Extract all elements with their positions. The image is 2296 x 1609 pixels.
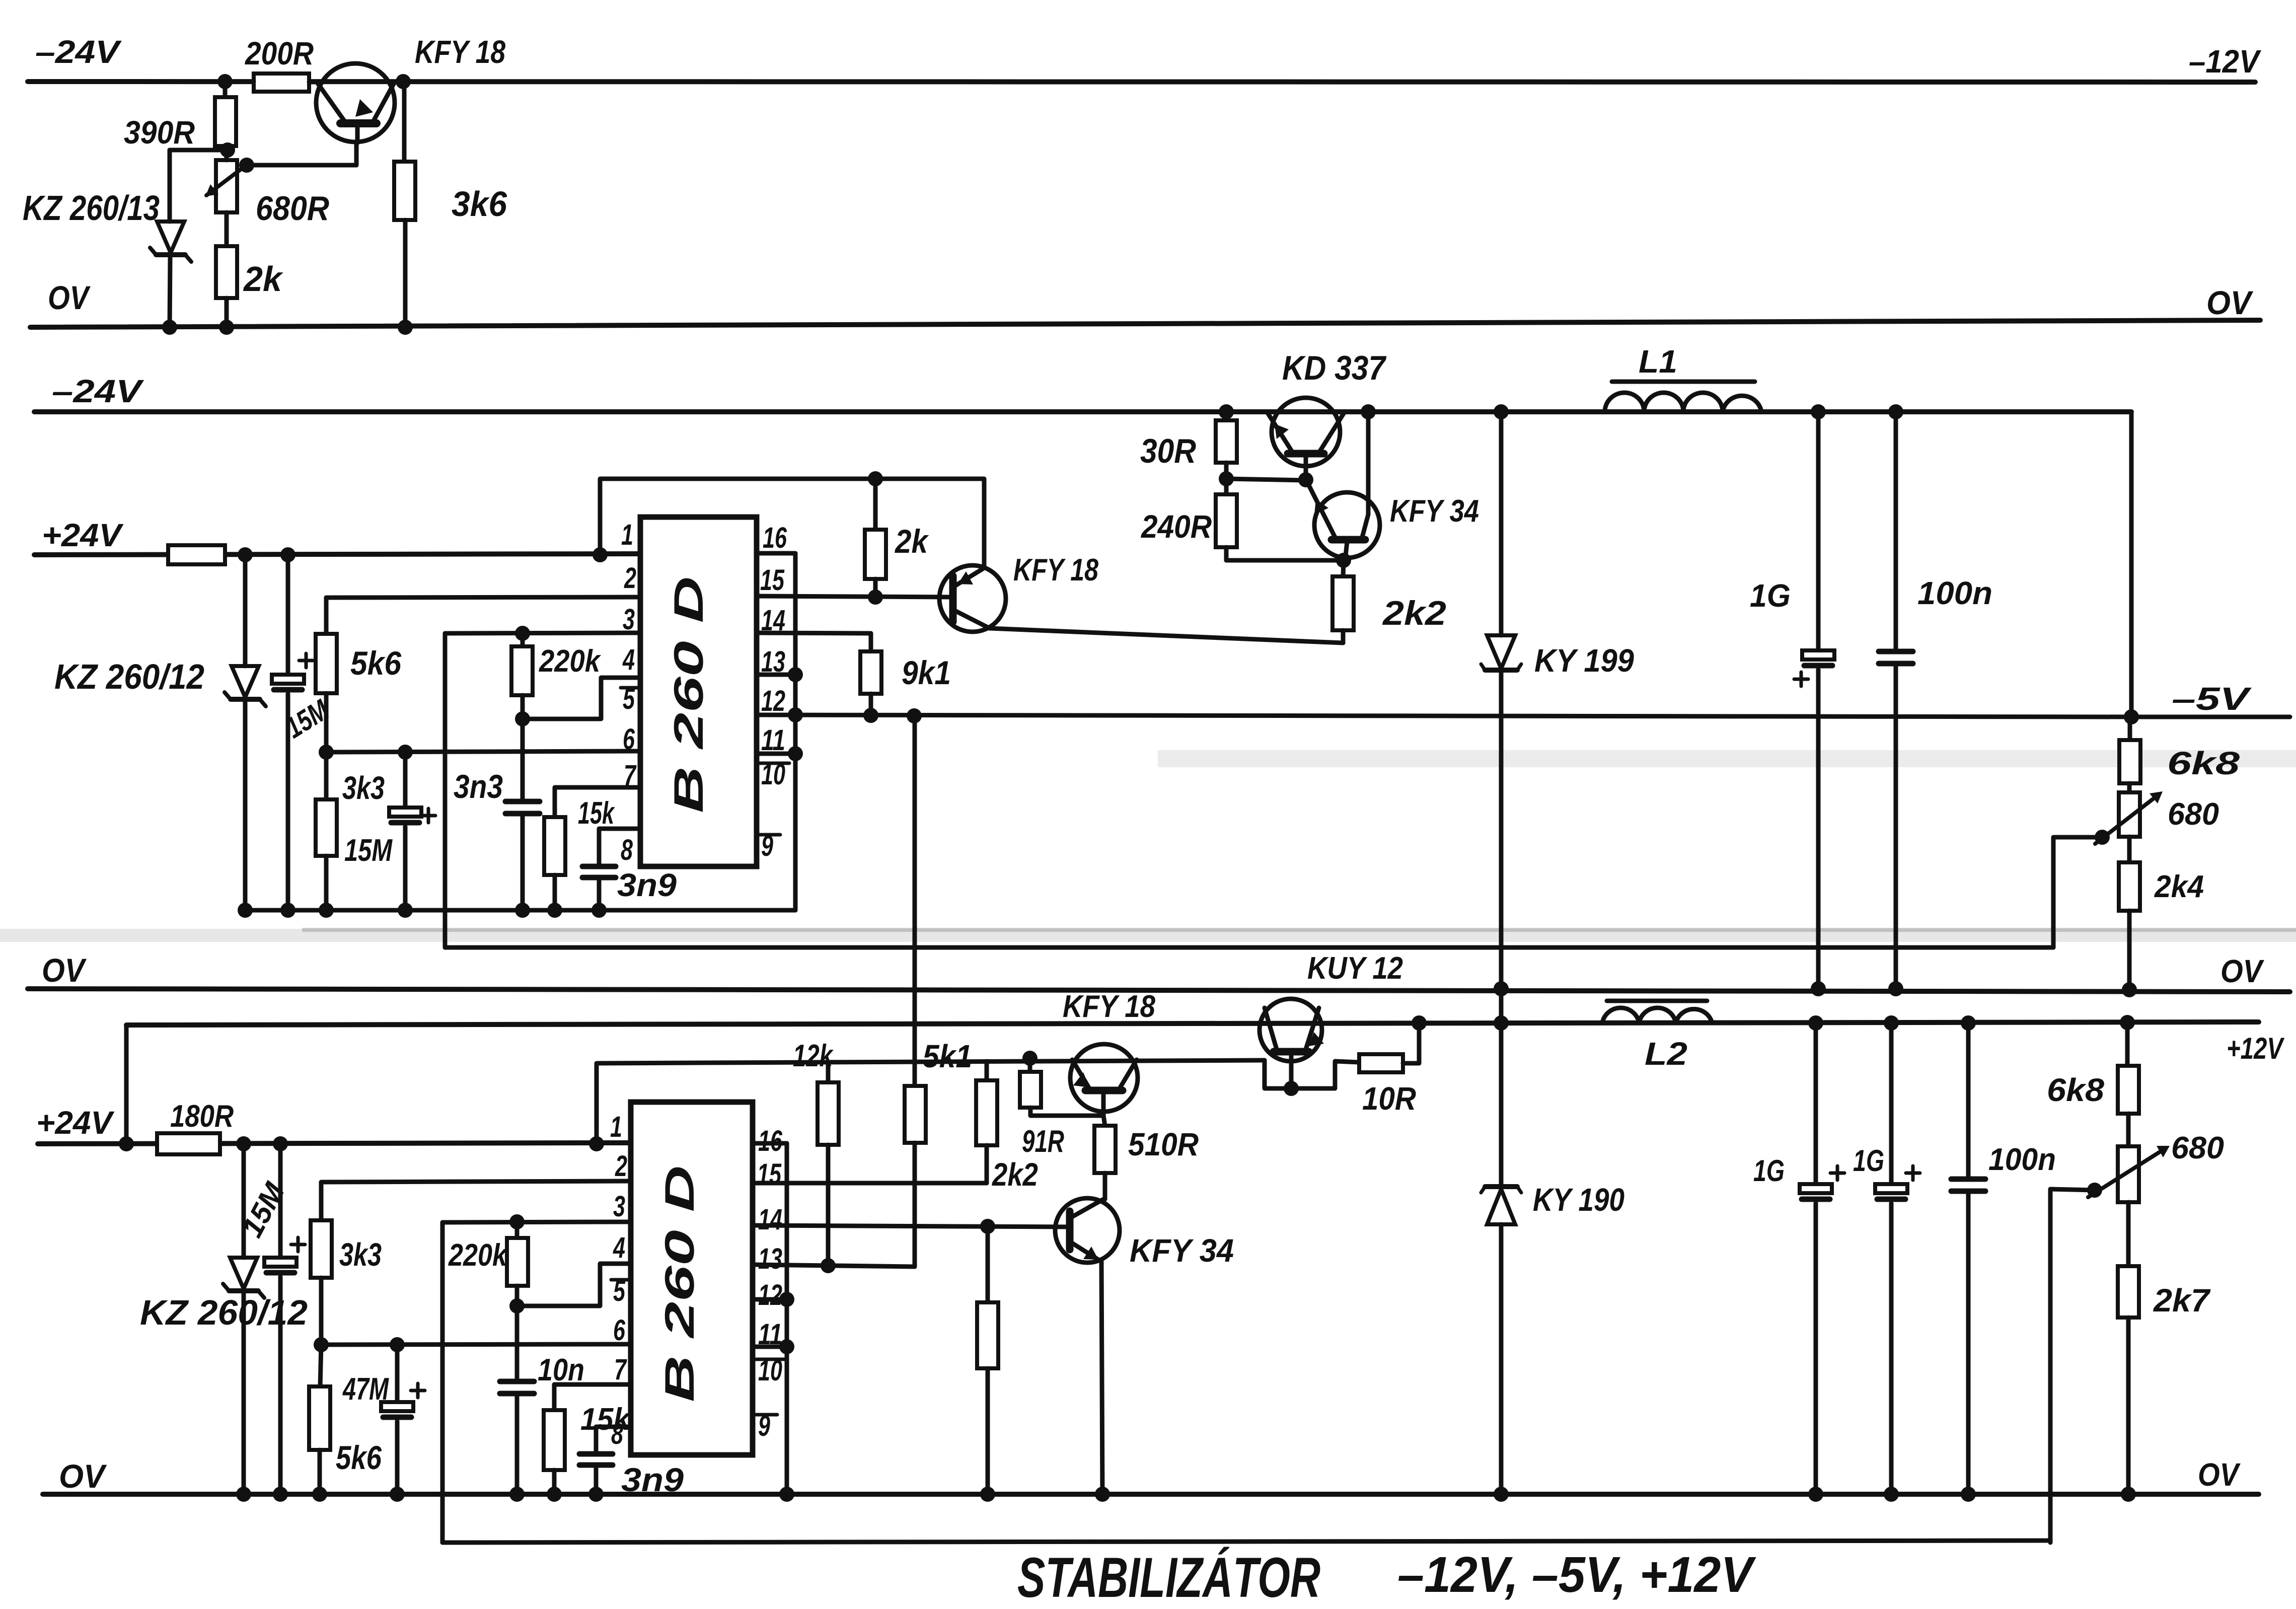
svg-text:2: 2 [624, 562, 636, 595]
wire pin15 (bottom) [753, 1181, 987, 1186]
node KZ 260/12 junction [238, 547, 253, 562]
svg-text:3k3: 3k3 [342, 770, 385, 806]
node 91R junction on Line B [1022, 1051, 1038, 1066]
resistor 15k (bottom) [544, 1384, 631, 1502]
svg-text:3n3: 3n3 [454, 768, 503, 805]
svg-text:1G: 1G [1750, 577, 1791, 614]
svg-text:12k: 12k [793, 1039, 834, 1073]
zener diode KZ 260/12 [225, 555, 266, 918]
label 10n [538, 1353, 584, 1387]
svg-text:OV: OV [2220, 953, 2265, 989]
label OV bottom-left [59, 1457, 107, 1495]
net 0V rail (middle) [28, 989, 2290, 992]
potentiometer 680 (middle) [2095, 783, 2163, 845]
label B260D (IC2) [657, 1165, 703, 1402]
label 6k8 mid [2167, 745, 2240, 781]
capacitor 3n9 (bottom) [579, 1427, 631, 1502]
zener diode KZ 260/13 [150, 150, 191, 335]
svg-text:B 260 D: B 260 D [657, 1165, 703, 1402]
wire pin6 row (middle) [319, 745, 640, 760]
label L2 [1645, 1036, 1687, 1072]
label KFY 34 bottom [1130, 1232, 1234, 1269]
IC1 pin 4 label [622, 643, 635, 676]
label 2k2 mid [1382, 594, 1446, 632]
node 30R junction on -24V [1219, 404, 1234, 419]
label OV mid-left [42, 952, 87, 989]
svg-text:2k: 2k [894, 523, 929, 560]
net +24V rail (bottom) [38, 1143, 631, 1144]
label 15k mid [578, 796, 615, 831]
label KZ 260/12 mid [54, 657, 204, 696]
svg-text:9k1: 9k1 [902, 654, 951, 691]
IC1 pin 14 label [761, 604, 785, 637]
inductor L2 [1602, 1001, 1712, 1023]
svg-text:1: 1 [621, 519, 633, 551]
svg-text:2k2: 2k2 [1382, 594, 1446, 632]
svg-text:OV: OV [59, 1457, 107, 1495]
resistor 220k (middle) [511, 633, 533, 726]
node 15M junction (bottom) [273, 1136, 288, 1151]
zener diode KZ 260/12 (bottom) [223, 1144, 264, 1502]
label KD 337 [1282, 349, 1387, 387]
svg-text:KZ 260/13: KZ 260/13 [23, 188, 160, 228]
wire pin4 jog (bottom) [517, 1264, 631, 1306]
wire 680 wiper to feedback (bottom) [2050, 1189, 2095, 1543]
IC1 pin 8 label [621, 834, 633, 866]
wire pin13 (bottom) [753, 1265, 915, 1267]
resistor 390R [215, 82, 236, 150]
label 15M bottom (rotated) [236, 1177, 291, 1242]
svg-text:390R: 390R [124, 114, 195, 151]
IC2 pin 5 label [611, 1275, 629, 1307]
svg-text:+24V: +24V [42, 517, 124, 553]
wire pin3 (middle) with feedback riser [445, 626, 640, 947]
IC2 pin 3 label [613, 1190, 625, 1223]
label -5V [2172, 681, 2252, 717]
node +24V riser junction [119, 1136, 134, 1151]
svg-text:B 260 D: B 260 D [666, 576, 712, 813]
svg-text:OV: OV [2198, 1456, 2241, 1493]
label 6k8 bottom [2047, 1072, 2104, 1108]
IC2 pin 6 label [613, 1314, 626, 1347]
svg-text:680: 680 [2168, 797, 2219, 832]
potentiometer 680 (bottom) [2087, 1114, 2170, 1202]
net 0V rail (bottom) [43, 1492, 2259, 1497]
svg-text:3: 3 [613, 1190, 625, 1223]
label 390R [124, 114, 195, 151]
label 510R [1128, 1126, 1199, 1162]
capacitor 3n9 (middle) [582, 829, 640, 918]
label 2k7 [2153, 1282, 2211, 1319]
label +12V [2227, 1032, 2285, 1065]
label KFY18 mid [1013, 553, 1098, 588]
node KFY34 emitter to 0V [1095, 1487, 1110, 1502]
IC1 pin 5 label [621, 683, 639, 715]
label 220k mid [539, 644, 602, 679]
series resistor on +24V [168, 545, 225, 564]
label 680R [256, 189, 329, 228]
svg-text:15: 15 [760, 564, 785, 597]
label +24V bottom-left [36, 1105, 115, 1141]
label 1G mid [1750, 577, 1791, 614]
label 3n3 [454, 768, 503, 805]
svg-text:4: 4 [622, 643, 635, 676]
IC2 pin 11 label [758, 1318, 782, 1351]
IC2 pin12 stub [753, 1297, 787, 1302]
wire KFY18 collector to 2k2 [990, 628, 1343, 643]
IC2 pin 16 label [758, 1125, 783, 1157]
resistor 2k (top) [216, 212, 237, 335]
IC2 right pin bus [779, 1143, 794, 1502]
wire KFY34 collector to -24V [1361, 404, 1376, 515]
IC1 pin13 stub [757, 673, 795, 677]
svg-text:7: 7 [614, 1353, 627, 1386]
label 680 mid [2168, 797, 2219, 832]
capacitor 1G (bottom first) [1800, 1015, 1844, 1502]
node pin1 junction (bottom) [589, 1136, 604, 1151]
IC2 pin 7 label [614, 1353, 627, 1386]
transistor KFY34 (bottom) [1055, 1198, 1120, 1494]
svg-text:OV: OV [2206, 284, 2254, 321]
capacitor 10n [500, 1306, 534, 1502]
wire pin14 (bottom) [753, 1219, 1070, 1234]
resistor 12k [818, 1063, 839, 1273]
resistor 15k (middle) [544, 787, 640, 918]
IC U1 B260D body [640, 517, 757, 866]
svg-text:91R: 91R [1022, 1124, 1064, 1159]
resistor 5k1 [905, 716, 926, 1267]
node 100n top (middle) [1888, 404, 1903, 419]
capacitor 1G (middle) [1794, 412, 1834, 996]
IC1 pin 11 label [761, 724, 785, 757]
svg-text:KY 199: KY 199 [1534, 642, 1634, 679]
node 390R/680R junction [170, 142, 235, 158]
label 2k4 [2154, 869, 2204, 904]
label 12k [793, 1039, 834, 1073]
svg-text:1G: 1G [1753, 1154, 1785, 1188]
label KUY 12 [1307, 951, 1403, 986]
svg-text:KD 337: KD 337 [1282, 349, 1387, 387]
svg-text:+24V: +24V [36, 1105, 115, 1141]
svg-text:5k6: 5k6 [350, 644, 402, 682]
IC1 pin 6 label [623, 723, 635, 756]
IC1 pin 2 label [624, 562, 636, 595]
IC1 pin 16 label [763, 522, 787, 554]
IC1 pin 7 label [624, 759, 637, 792]
wire pin15 to KFY18 base [757, 596, 953, 597]
svg-text:240R: 240R [1141, 508, 1212, 545]
svg-text:8: 8 [621, 834, 633, 866]
net 0V rail (top) [30, 320, 2260, 327]
label KFY 34 mid [1390, 494, 1479, 529]
svg-text:180R: 180R [170, 1099, 234, 1134]
svg-text:1: 1 [610, 1111, 622, 1143]
label 1G bottom first [1753, 1154, 1785, 1188]
svg-text:6k8: 6k8 [2167, 745, 2240, 781]
svg-text:220k: 220k [448, 1238, 508, 1273]
svg-text:–12V, –5V, +12V: –12V, –5V, +12V [1397, 1547, 1756, 1603]
IC2 pin 8 label [611, 1418, 624, 1450]
svg-text:L2: L2 [1645, 1036, 1687, 1072]
label KZ 260/12 bottom [140, 1293, 308, 1332]
label 100n bottom [1988, 1142, 2056, 1177]
label KFY18 bottom [1063, 989, 1155, 1024]
resistor 91R [1020, 1058, 1103, 1116]
wire 680 wiper to feedback [2053, 837, 2102, 947]
diode KY199 [1481, 404, 1521, 996]
wire component ground bus (middle) [245, 908, 795, 913]
svg-text:16: 16 [763, 522, 787, 554]
label 3n9 bottom [621, 1461, 684, 1498]
IC1 pin 1 label [621, 519, 633, 551]
label -12V top-right [2189, 43, 2262, 80]
label KFY18 top [415, 34, 505, 70]
label 15k bottom [580, 1402, 631, 1437]
svg-text:15M: 15M [344, 833, 393, 868]
IC2 pin 14 label [758, 1203, 782, 1236]
wire feedback line (bottom) [442, 1541, 2050, 1543]
svg-text:2k7: 2k7 [2153, 1282, 2211, 1319]
transistor KFY18 (middle) [939, 565, 1006, 632]
svg-text:KFY 34: KFY 34 [1390, 494, 1479, 529]
IC2 pin 9 label [756, 1410, 777, 1442]
svg-text:2k2: 2k2 [992, 1156, 1038, 1193]
svg-text:KY 190: KY 190 [1533, 1182, 1624, 1218]
node junction on -24V at 390R [217, 74, 233, 89]
svg-text:30R: 30R [1140, 432, 1196, 470]
IC2 pin 2 label [615, 1150, 627, 1183]
svg-text:2: 2 [615, 1150, 627, 1183]
capacitor 15M (bottom) [264, 1144, 305, 1502]
svg-text:KZ 260/12: KZ 260/12 [54, 657, 204, 696]
svg-text:12: 12 [761, 685, 785, 717]
resistor 220k (bottom) [507, 1222, 528, 1313]
IC2 pin16 stub [753, 1141, 787, 1146]
IC2 pin 4 label [613, 1231, 625, 1264]
net -24V rail (middle) [34, 409, 2131, 414]
net -24V rail (top) [28, 82, 2255, 82]
resistor 3k3 (middle) [316, 752, 337, 918]
transistor KUY12 [1260, 999, 1324, 1088]
label 1G bottom second [1853, 1144, 1884, 1178]
title STABILIZATOR [1017, 1546, 1320, 1609]
svg-text:L1: L1 [1639, 343, 1677, 380]
svg-text:6: 6 [623, 723, 635, 756]
wire feedback line (middle) [445, 945, 2053, 950]
resistor 5k6 (bottom) [309, 1345, 330, 1502]
svg-text:6: 6 [613, 1314, 626, 1347]
transistor KFY18 (top) [316, 63, 395, 143]
label OV top-right [2206, 284, 2254, 321]
svg-text:–5V: –5V [2172, 681, 2252, 717]
wire +24V top loop (middle) [592, 471, 984, 567]
capacitor 3n3 [505, 719, 540, 918]
resistor 2k4 [2119, 837, 2140, 997]
resistor 180R [157, 1133, 220, 1154]
svg-text:680: 680 [2171, 1131, 2224, 1165]
label 10R [1362, 1080, 1416, 1117]
resistor 5k6 (middle) [316, 597, 640, 752]
wire +24V riser to +12V line [124, 1025, 129, 1144]
transistor KFY18 (bottom) [1070, 1044, 1138, 1116]
IC1 pin 9 label [759, 830, 780, 862]
label -24V mid-left [52, 373, 144, 409]
resistor 3k6 [394, 82, 415, 335]
label 5k6 mid [350, 644, 402, 682]
label 3k6 [452, 184, 507, 224]
title voltages [1397, 1547, 1756, 1603]
resistor 510R [1094, 1116, 1116, 1199]
wire pin14 (middle) [757, 633, 871, 633]
svg-text:2k4: 2k4 [2154, 869, 2204, 904]
svg-text:10R: 10R [1362, 1080, 1416, 1117]
svg-text:220k: 220k [539, 644, 602, 679]
svg-text:100n: 100n [1917, 575, 1992, 611]
capacitor 47M [381, 1345, 425, 1502]
label 240R [1141, 508, 1212, 545]
label -24V top-left [35, 34, 122, 70]
label 3k3 bottom [339, 1236, 382, 1273]
label 5k1 [923, 1038, 972, 1074]
wire pin6 row (bottom) [314, 1337, 631, 1352]
svg-text:+12V: +12V [2227, 1032, 2285, 1065]
svg-text:STABILIZÁTOR: STABILIZÁTOR [1017, 1546, 1320, 1609]
capacitor 100n (middle) [1879, 412, 1913, 996]
IC1 pin 3 label [623, 603, 635, 636]
svg-text:100n: 100n [1988, 1142, 2056, 1177]
svg-text:–12V: –12V [2189, 43, 2262, 80]
node 15M junction [280, 547, 295, 562]
resistor below 2k2 (bottom) [977, 1226, 998, 1502]
node -24V/3k6 junction [396, 74, 411, 89]
resistor 6k8 (bottom) [2118, 1015, 2139, 1114]
svg-text:KFY 34: KFY 34 [1130, 1232, 1234, 1269]
net -5V stub right [2131, 715, 2290, 719]
label KY 190 [1533, 1182, 1624, 1218]
svg-text:15k: 15k [578, 796, 615, 831]
diode KY190 [1481, 990, 1521, 1502]
resistor 6k8 (middle) [2119, 717, 2140, 783]
wire pin3 (bottom) with feedback riser [442, 1214, 631, 1543]
node 30R/240R junction [1219, 471, 1313, 487]
svg-text:510R: 510R [1128, 1126, 1199, 1162]
svg-text:680R: 680R [256, 189, 329, 228]
svg-text:–24V: –24V [35, 34, 122, 70]
IC1 pin 10 label [759, 758, 789, 791]
label 5k6 bottom [336, 1439, 382, 1476]
IC1 pin 15 label [760, 564, 785, 597]
svg-text:15k: 15k [580, 1402, 631, 1437]
svg-text:KFY 18: KFY 18 [1013, 553, 1098, 588]
label 47M [342, 1372, 389, 1407]
resistor 2k2 (middle) [1332, 560, 1354, 643]
label B260D (IC1) [666, 576, 712, 813]
svg-text:15: 15 [757, 1158, 782, 1191]
svg-text:5k1: 5k1 [923, 1038, 972, 1074]
svg-text:KFY 18: KFY 18 [1063, 989, 1155, 1024]
IC1 pin11 stub [757, 752, 795, 756]
svg-text:12: 12 [758, 1279, 782, 1311]
wire pot wiper to KFY18 base [247, 143, 356, 165]
label 2k2 bottom [992, 1156, 1038, 1193]
svg-text:8: 8 [611, 1418, 624, 1450]
resistor 9k1 [860, 633, 881, 723]
label 2k top [243, 259, 283, 299]
label KZ 260/13 [23, 188, 160, 228]
wire 240R to KFY34 base [1226, 553, 1351, 568]
svg-text:47M: 47M [342, 1372, 389, 1407]
inductor L1 [1605, 382, 1761, 412]
svg-text:14: 14 [758, 1203, 782, 1236]
svg-text:–24V: –24V [52, 373, 144, 409]
wire pin1 riser to Line B (bottom) [595, 1064, 599, 1144]
label 220k bottom [448, 1238, 508, 1273]
svg-text:OV: OV [42, 952, 87, 989]
resistor 2k7 [2118, 1202, 2139, 1502]
svg-text:13: 13 [758, 1242, 782, 1275]
label 3n9 mid [617, 867, 677, 903]
label 15M second [344, 833, 393, 868]
IC2 pin 10 label [756, 1354, 786, 1387]
svg-text:6k8: 6k8 [2047, 1072, 2104, 1108]
svg-text:3n9: 3n9 [617, 867, 677, 903]
net -5V / pin12 wire [757, 708, 2131, 723]
node KZ junction (bottom) [236, 1136, 251, 1151]
wire L1 output to -5V [2124, 412, 2139, 724]
svg-text:KUY 12: KUY 12 [1307, 951, 1403, 986]
IC1 right pin bus [788, 553, 803, 910]
node 1G top (middle) [1811, 404, 1826, 419]
capacitor 15M (second) [389, 752, 435, 918]
wire Line B detour under KUY12 [1265, 1060, 1359, 1096]
resistor 200R [225, 74, 322, 92]
resistor 10R [1359, 1015, 1427, 1072]
svg-text:3k6: 3k6 [452, 184, 507, 224]
IC1 pin 12 label [761, 685, 785, 717]
IC2 pin 1 label [610, 1111, 622, 1143]
svg-text:200R: 200R [245, 35, 314, 71]
IC2 pin 13 label [758, 1242, 782, 1275]
svg-text:3: 3 [623, 603, 635, 636]
svg-text:4: 4 [613, 1231, 625, 1264]
resistor 30R [1216, 420, 1237, 478]
IC1 pin16 stub [757, 551, 795, 556]
IC2 pin 12 label [758, 1279, 782, 1311]
IC2 pin 15 label [757, 1158, 782, 1191]
resistor 2k2 (bottom) [976, 1061, 997, 1183]
label 15M input (rotated) [279, 693, 335, 745]
transistor KD337 [1268, 398, 1344, 480]
svg-text:7: 7 [624, 759, 637, 792]
resistor 2k (middle) [865, 479, 886, 605]
resistor 3k3 (bottom) [311, 1181, 631, 1345]
capacitor 1G (bottom second) [1875, 1015, 1920, 1502]
potentiometer 680R [205, 150, 254, 212]
wire pin4 jog (middle) [523, 678, 640, 719]
capacitor 100n (bottom) [1951, 1015, 1985, 1502]
label 100n mid [1917, 575, 1992, 611]
svg-text:2k: 2k [243, 259, 283, 299]
capacitor 15M (input) [272, 555, 313, 918]
svg-text:OV: OV [48, 279, 91, 316]
IC2 pin11 stub [753, 1345, 787, 1349]
label OV bottom-right [2198, 1456, 2241, 1493]
label OV mid-right [2220, 953, 2265, 989]
label 200R [245, 35, 314, 71]
label 9k1 [902, 654, 951, 691]
transistor KFY34 (middle) [1307, 481, 1380, 560]
label +24V mid-left [42, 517, 124, 553]
